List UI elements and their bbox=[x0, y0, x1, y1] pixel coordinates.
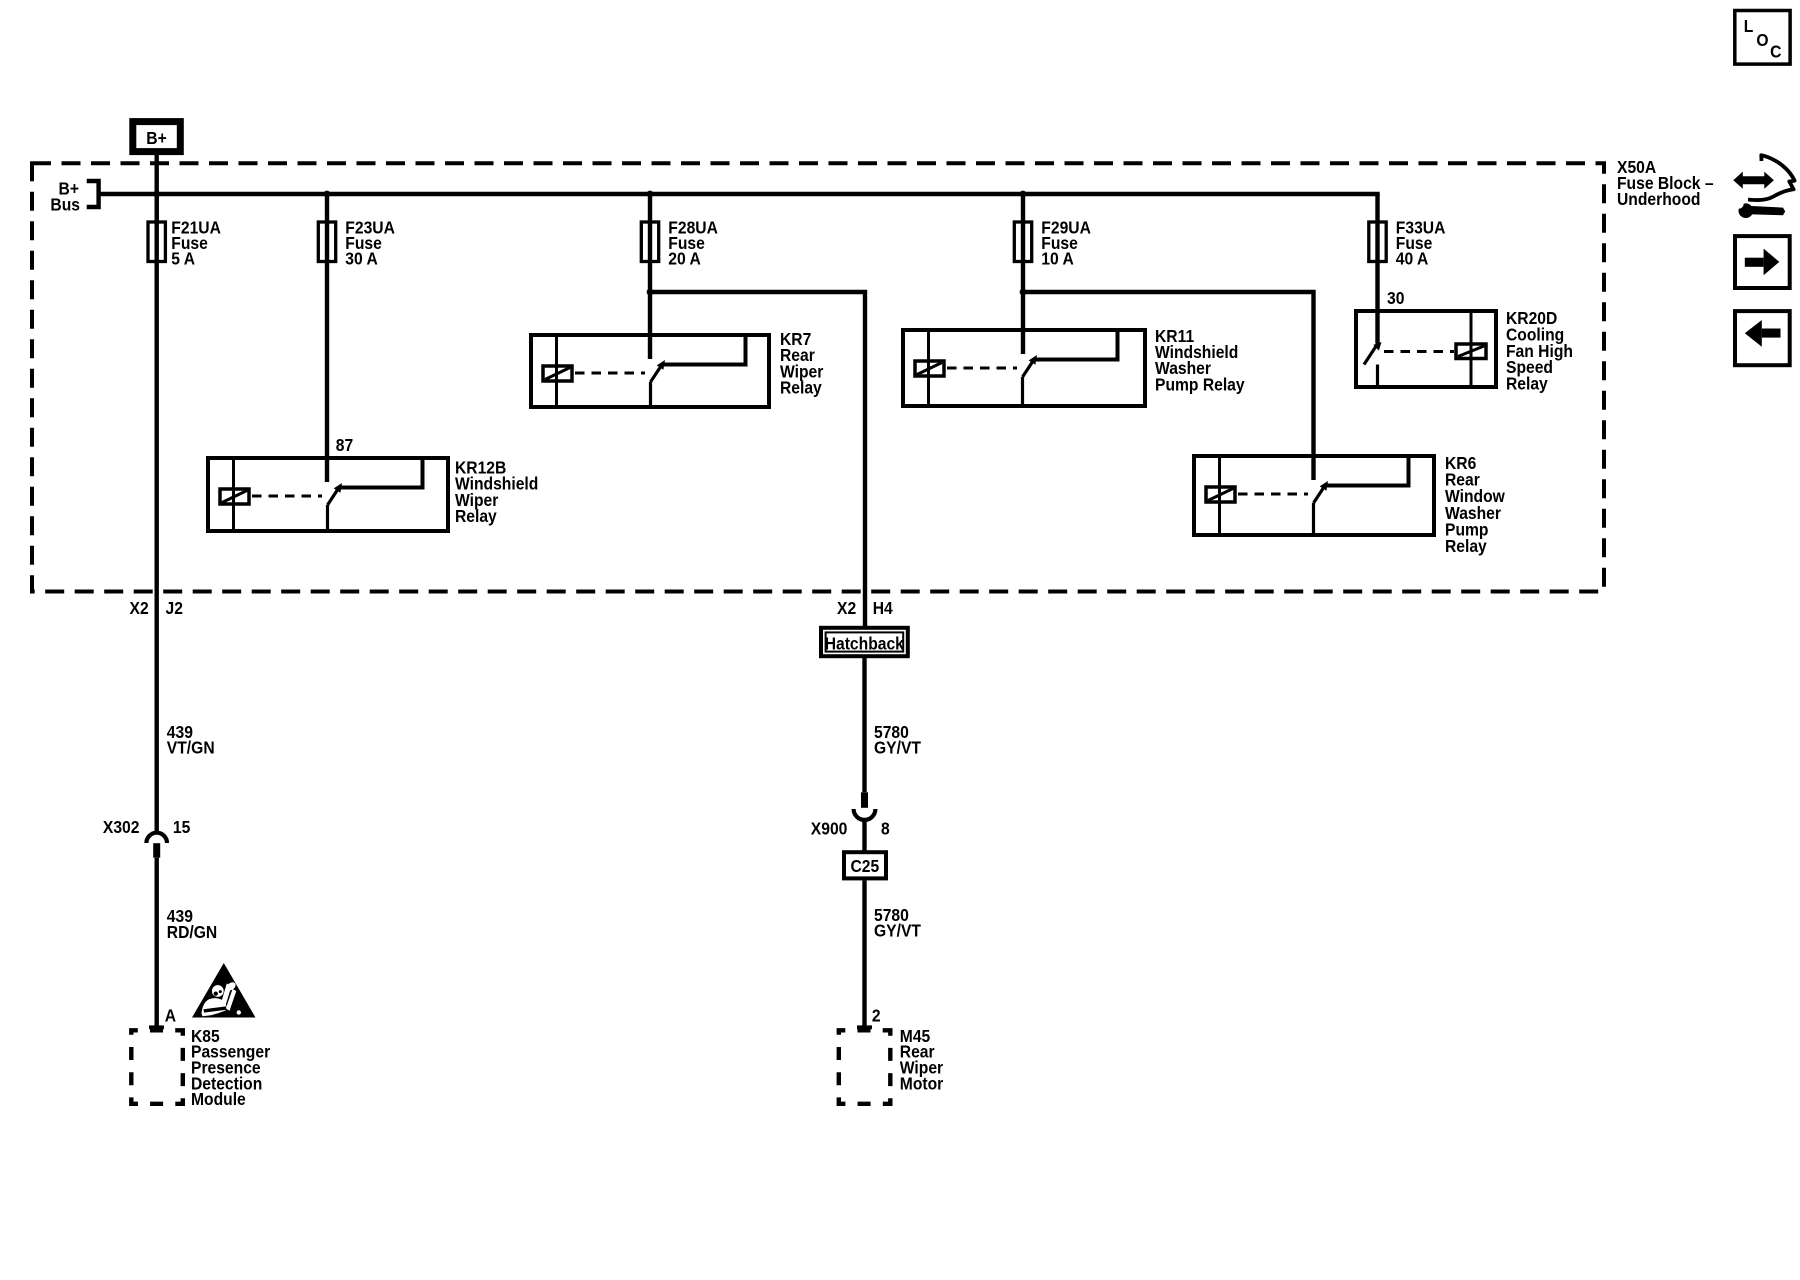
label F23UA Fuse 30 A bbox=[345, 217, 395, 268]
svg-text:10 A: 10 A bbox=[1041, 248, 1073, 268]
legend box arrow right bbox=[1735, 236, 1790, 288]
label F33UA Fuse 40 A bbox=[1396, 217, 1446, 268]
relay KR12B Windshield Wiper Relay bbox=[208, 458, 448, 531]
wire junction to relay KR6 feed bbox=[1023, 292, 1314, 480]
svg-text:Underhood: Underhood bbox=[1617, 189, 1700, 209]
wire X900 to C25 bbox=[862, 820, 866, 852]
fuse F21UA bbox=[148, 222, 165, 262]
label KR11 Windshield Washer Pump Relay bbox=[1155, 326, 1245, 395]
svg-text:Motor: Motor bbox=[900, 1073, 944, 1093]
svg-text:Pump Relay: Pump Relay bbox=[1155, 374, 1245, 394]
node junction below F28UA bbox=[647, 289, 654, 296]
svg-text:Hatchback: Hatchback bbox=[825, 633, 905, 653]
connector X302 pin 15 bbox=[146, 833, 167, 858]
svg-text:X2: X2 bbox=[130, 598, 149, 618]
fuse F33UA bbox=[1369, 222, 1386, 262]
node junction below F29UA bbox=[1020, 289, 1027, 296]
relay KR20D Cooling Fan High Speed Relay bbox=[1356, 311, 1496, 387]
wire bus to fuse F28UA bbox=[648, 194, 652, 263]
icon vehicle diagnostic double arrow bbox=[1733, 172, 1774, 189]
svg-text:GY/VT: GY/VT bbox=[874, 737, 922, 757]
svg-text:O: O bbox=[1756, 30, 1768, 50]
label F28UA Fuse 20 A bbox=[668, 217, 718, 268]
wire 5780 GY/VT hatchback to X900 bbox=[862, 656, 866, 792]
svg-text:VT/GN: VT/GN bbox=[167, 737, 215, 757]
node bus at F29UA tap bbox=[1020, 191, 1027, 198]
legend LOC box bbox=[1735, 11, 1790, 65]
svg-text:C: C bbox=[1770, 41, 1781, 61]
svg-text:B+: B+ bbox=[146, 128, 167, 148]
svg-text:Relay: Relay bbox=[780, 378, 822, 398]
label F21UA Fuse 5 A bbox=[171, 217, 221, 268]
module K85 dashed box bbox=[131, 1030, 183, 1104]
svg-text:40 A: 40 A bbox=[1396, 248, 1428, 268]
wire 439 VT/GN fuse F21UA to X302 bbox=[154, 263, 158, 832]
svg-text:C25: C25 bbox=[850, 856, 879, 876]
wire bus to fuse F33UA bbox=[1375, 194, 1379, 263]
svg-text:Relay: Relay bbox=[1445, 536, 1487, 556]
svg-text:X900: X900 bbox=[811, 818, 848, 838]
svg-text:15: 15 bbox=[173, 817, 190, 837]
svg-text:30: 30 bbox=[1387, 288, 1404, 308]
wire 439 RD/GN X302 to K85 bbox=[154, 858, 158, 1026]
svg-text:Bus: Bus bbox=[50, 194, 80, 214]
fuse block X50A dashed border bbox=[32, 163, 1604, 591]
bus bracket terminal bbox=[87, 181, 99, 207]
motor M45 dashed box bbox=[839, 1030, 891, 1104]
svg-text:H4: H4 bbox=[873, 598, 894, 618]
wire fuse F33UA to relay KR20D bbox=[1375, 263, 1379, 344]
label KR12B Windshield Wiper Relay bbox=[455, 457, 538, 526]
node bus at F23UA tap bbox=[324, 191, 331, 198]
svg-text:Relay: Relay bbox=[1506, 374, 1548, 394]
wire fuse F23UA to relay KR12B switch bbox=[325, 263, 329, 482]
power symbol B+ box bbox=[133, 122, 181, 152]
svg-text:20 A: 20 A bbox=[668, 248, 700, 268]
relay KR6 Rear Window Washer Pump Relay bbox=[1194, 456, 1434, 535]
svg-text:L: L bbox=[1744, 16, 1754, 36]
svg-text:J2: J2 bbox=[166, 598, 183, 618]
wire bus to fuse F23UA bbox=[325, 194, 329, 263]
label KR6 Rear Window Washer Pump Relay bbox=[1445, 453, 1506, 556]
wire B+ bus bar bbox=[98, 192, 1380, 196]
svg-text:Module: Module bbox=[191, 1089, 246, 1109]
wire B+ feed down from B+ box bbox=[154, 155, 158, 221]
svg-text:2: 2 bbox=[872, 1005, 881, 1025]
airbag SIR caution triangle bbox=[192, 963, 256, 1018]
svg-text:X302: X302 bbox=[103, 817, 140, 837]
svg-text:X2: X2 bbox=[837, 598, 856, 618]
wire bus to fuse F21UA bbox=[154, 194, 158, 263]
relay KR11 Windshield Washer Pump Relay bbox=[903, 330, 1145, 406]
M45 terminal bar bbox=[857, 1025, 872, 1029]
node bus at F28UA tap bbox=[647, 191, 654, 198]
svg-text:Relay: Relay bbox=[455, 506, 497, 526]
label M45 Rear Wiper Motor bbox=[900, 1026, 944, 1094]
fuse F23UA bbox=[318, 222, 335, 262]
svg-text:30 A: 30 A bbox=[345, 248, 377, 268]
wire junction to hatchback drop bbox=[650, 292, 865, 628]
svg-text:87: 87 bbox=[336, 435, 353, 455]
K85 terminal bar bbox=[149, 1025, 164, 1029]
relay KR7 Rear Wiper Relay bbox=[531, 335, 769, 407]
legend box arrow left bbox=[1735, 311, 1790, 365]
fuse F29UA bbox=[1014, 222, 1031, 262]
label KR7 Rear Wiper Relay bbox=[780, 329, 824, 398]
icon vehicle front outline bbox=[1748, 155, 1795, 200]
node bus at F21UA tap bbox=[153, 191, 160, 198]
box Hatchback bbox=[821, 628, 908, 656]
svg-text:RD/GN: RD/GN bbox=[167, 922, 217, 942]
icon wrench bbox=[1734, 199, 1785, 218]
label KR20D Cooling Fan High Speed Relay bbox=[1506, 308, 1573, 394]
svg-text:8: 8 bbox=[881, 818, 890, 838]
wire 5780 GY/VT C25 to M45 bbox=[862, 880, 866, 1026]
inline connector C25 box bbox=[844, 852, 886, 878]
label F29UA Fuse 10 A bbox=[1041, 217, 1091, 268]
wire bus to fuse F29UA bbox=[1021, 194, 1025, 263]
fuse F28UA bbox=[641, 222, 658, 262]
connector X900 pin 8 bbox=[854, 792, 876, 820]
wire fuse F28UA down to junction bbox=[648, 263, 652, 359]
label X50A Fuse Block - Underhood bbox=[1617, 157, 1714, 210]
wire fuse F29UA down to junction bbox=[1021, 263, 1025, 354]
label K85 Passenger Presence Detection Module bbox=[191, 1026, 271, 1109]
svg-text:GY/VT: GY/VT bbox=[874, 921, 922, 941]
svg-text:5 A: 5 A bbox=[171, 248, 195, 268]
svg-text:A: A bbox=[165, 1005, 176, 1025]
